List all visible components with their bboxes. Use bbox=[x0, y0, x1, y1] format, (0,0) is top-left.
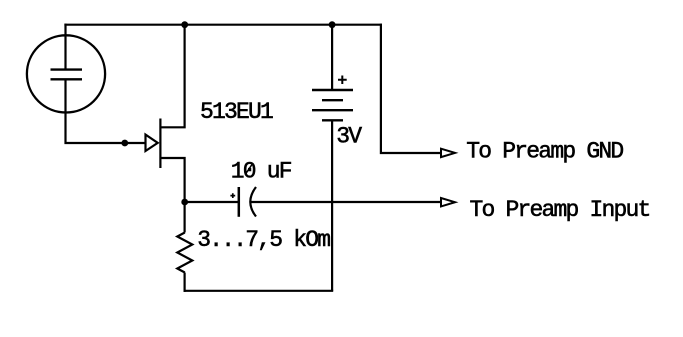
svg-text:To Preamp Input: To Preamp Input bbox=[470, 197, 650, 223]
wire battery bottom lead bbox=[331, 120, 333, 290]
wire node to resistor bbox=[184, 202, 186, 233]
wire top rail bbox=[64, 24, 382, 26]
svg-text:513EU1: 513EU1 bbox=[200, 99, 273, 125]
capacitor C1 negative curved plate bbox=[250, 187, 256, 217]
wire capacitor to input arrow bbox=[251, 201, 441, 203]
wire bottom rail bbox=[184, 290, 334, 292]
junction dot on gate wire bbox=[121, 140, 128, 147]
wire node to capacitor bbox=[185, 201, 238, 203]
wire mic bottom lead to gate bbox=[66, 79, 146, 143]
junction dot source node bbox=[181, 199, 188, 206]
battery BT1 long plate 2 bbox=[312, 109, 353, 111]
battery BT1 short plate 1 bbox=[322, 99, 343, 101]
svg-text:10 uF: 10 uF bbox=[231, 158, 292, 184]
mic capacitor lower plate bbox=[51, 78, 83, 80]
capacitor C1 positive plate bbox=[238, 187, 241, 217]
wire mic top lead bbox=[64, 24, 66, 70]
wire gnd branch from top rail bbox=[381, 24, 441, 153]
arrow to preamp GND bbox=[441, 149, 455, 157]
transistor Q1 gate arrow bbox=[146, 135, 158, 151]
wire drain lead bbox=[160, 25, 184, 128]
svg-text:3V: 3V bbox=[336, 123, 362, 149]
wire source lead bbox=[160, 158, 184, 202]
slash of zero in 10 uF label bbox=[245, 164, 252, 175]
junction dot battery / top rail bbox=[329, 21, 336, 28]
junction dot drain / top rail bbox=[181, 21, 188, 28]
svg-text:To Preamp GND: To Preamp GND bbox=[466, 139, 623, 165]
wire resistor to bottom rail bbox=[184, 273, 186, 292]
battery BT1 long plate 1 bbox=[312, 89, 353, 91]
wire battery top lead bbox=[331, 25, 333, 90]
transistor Q1 channel bar bbox=[159, 119, 161, 169]
resistor R1 zigzag bbox=[177, 233, 192, 273]
battery BT1 plus label bbox=[338, 76, 347, 85]
svg-text:3...7,5 kOm: 3...7,5 kOm bbox=[197, 227, 330, 253]
capacitor C1 plus sign bbox=[230, 193, 235, 198]
battery BT1 short plate 2 bbox=[322, 119, 343, 121]
arrow to preamp input bbox=[441, 198, 455, 206]
electret microphone capsule circle bbox=[27, 35, 105, 112]
mic capacitor upper plate bbox=[51, 68, 83, 70]
